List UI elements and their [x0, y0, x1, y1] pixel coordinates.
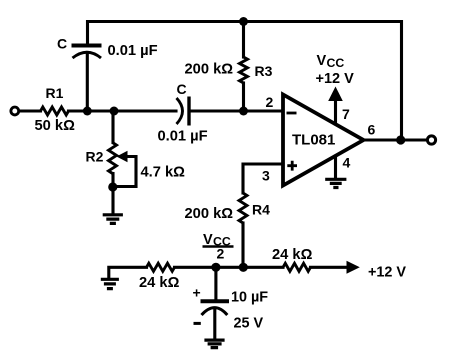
svg-text:0.01 µF: 0.01 µF — [108, 43, 158, 59]
minus sign of C3 — [194, 322, 201, 325]
resistor R3 — [240, 57, 248, 83]
ground below R2 — [103, 215, 123, 224]
wiper arrow of R2 — [117, 151, 128, 162]
svg-text:V: V — [317, 53, 327, 69]
wire bottom rail middle — [175, 266, 284, 269]
ground bottom-left — [101, 279, 119, 288]
svg-text:0.01 µF: 0.01 µF — [158, 129, 208, 145]
node R2 bottom junction — [108, 182, 117, 191]
svg-text:7: 7 — [342, 106, 350, 122]
svg-text:+12 V: +12 V — [316, 71, 355, 87]
wire pin 3 to R4 — [243, 164, 283, 193]
minus sign inverting input — [287, 112, 297, 115]
capacitor C2 curved plate — [177, 98, 183, 124]
svg-text:200 kΩ: 200 kΩ — [185, 62, 234, 78]
capacitor C1 curved plate — [73, 52, 102, 58]
wire capacitor C2 to inverting input node — [191, 109, 284, 112]
svg-text:2: 2 — [217, 246, 225, 262]
node output junction — [396, 135, 405, 144]
VCC arrowhead — [328, 87, 343, 102]
wire pin 7 to VCC arrow — [334, 100, 337, 124]
svg-text:3: 3 — [262, 168, 270, 184]
wire pin 4 to ground — [334, 156, 337, 178]
svg-text:4: 4 — [343, 155, 351, 171]
svg-text:25 V: 25 V — [234, 315, 264, 331]
svg-text:R4: R4 — [252, 202, 270, 218]
resistor R4 — [239, 193, 247, 223]
wire VCC/2 node down to capacitor C3 — [214, 267, 217, 300]
wire left ground to bottom rail — [109, 267, 147, 278]
resistor R2 potentiometer — [109, 143, 117, 174]
svg-text:6: 6 — [368, 122, 376, 138]
resistor 24k left — [147, 263, 175, 271]
wire R3 bottom — [242, 83, 245, 111]
node R4 bottom junction — [239, 263, 248, 272]
resistor R1 — [41, 107, 69, 115]
svg-text:2: 2 — [266, 94, 274, 110]
input terminal open circle — [11, 107, 19, 115]
svg-text:24 kΩ: 24 kΩ — [139, 275, 180, 291]
svg-text:R3: R3 — [255, 63, 273, 79]
svg-text:10 µF: 10 µF — [231, 290, 268, 306]
node A junction — [83, 107, 92, 116]
ground below C3 — [204, 340, 224, 348]
wire R2 to ground — [111, 174, 114, 214]
resistor 24k right — [283, 263, 311, 271]
node top rail junction — [239, 17, 248, 26]
svg-text:4.7 kΩ: 4.7 kΩ — [141, 165, 186, 181]
plus sign non-inverting input — [287, 161, 297, 171]
svg-text:+: + — [193, 285, 201, 301]
svg-text:TL081: TL081 — [292, 132, 335, 149]
svg-text:CC: CC — [327, 56, 345, 70]
wire wiper to lower terminal of R2 — [116, 157, 136, 187]
wire input to R1 — [19, 109, 41, 112]
output terminal open circle — [427, 136, 435, 144]
capacitor C3 curved plate — [202, 308, 228, 315]
wire output pin 6 — [362, 138, 427, 141]
capacitor C3 flat plate (+) — [201, 299, 230, 303]
wire to +12V arrow — [311, 266, 348, 269]
capacitor C1 top-left flat plate — [72, 44, 102, 48]
svg-text:C: C — [57, 36, 67, 52]
svg-text:50 kΩ: 50 kΩ — [35, 118, 76, 134]
node VCC/2 junction — [211, 263, 220, 272]
svg-text:C: C — [177, 81, 187, 97]
wire R4 to bottom rail — [241, 223, 244, 267]
wire capacitor C1 to node A — [86, 53, 89, 112]
wire R1 to capacitor C2 — [69, 109, 177, 112]
svg-text:R1: R1 — [46, 85, 64, 101]
node pin2 junction — [239, 107, 248, 116]
svg-text:24 kΩ: 24 kΩ — [272, 247, 313, 263]
wire top rail from C feedback up across to output vertical — [88, 22, 402, 141]
wire node B down to R2 — [111, 111, 114, 143]
svg-text:+12 V: +12 V — [368, 264, 406, 280]
+12V arrowhead — [347, 261, 360, 274]
node B junction — [110, 107, 119, 116]
capacitor C2 flat plate — [187, 97, 190, 126]
wire C3 to ground — [213, 309, 216, 339]
ground below pin 4 — [325, 179, 346, 187]
op-amp U1 TL081 — [283, 95, 364, 186]
wire R3 top — [242, 22, 245, 58]
svg-text:R2: R2 — [86, 149, 104, 165]
svg-text:200 kΩ: 200 kΩ — [185, 206, 234, 222]
